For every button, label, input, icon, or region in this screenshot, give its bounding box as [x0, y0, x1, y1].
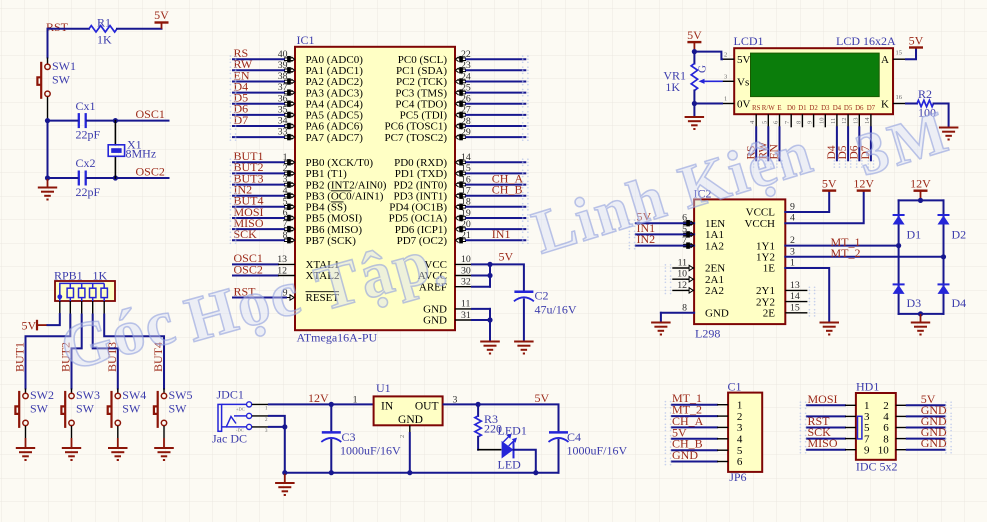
svg-text:2Y1: 2Y1	[756, 285, 775, 297]
svg-text:7: 7	[682, 235, 687, 246]
svg-text:D6: D6	[855, 105, 864, 112]
pin 25 wire PC3 (TMS)	[395, 82, 525, 99]
svg-text:R2: R2	[918, 87, 932, 101]
svg-text:0V: 0V	[737, 99, 751, 111]
svg-text:C2: C2	[535, 289, 549, 303]
svg-text:5: 5	[737, 445, 743, 457]
svg-text:32: 32	[461, 277, 471, 288]
svg-text:34: 34	[278, 116, 288, 127]
svg-text:2Y2: 2Y2	[756, 296, 775, 308]
svg-text:1: 1	[724, 96, 727, 103]
svg-text:D2: D2	[952, 228, 967, 242]
svg-text:37: 37	[278, 82, 288, 93]
pin 6 1EN wire 5V	[636, 210, 725, 230]
power 5V for LCD contrast	[687, 41, 701, 43]
ground SW3	[62, 438, 81, 460]
wire VR1 bottom to 0V	[693, 91, 695, 104]
svg-text:2: 2	[737, 411, 743, 423]
ground C2	[514, 341, 534, 343]
svg-text:R1: R1	[97, 16, 111, 30]
pin 4 VCCH wire	[744, 192, 863, 230]
LED LED1	[498, 424, 527, 472]
svg-text:SW2: SW2	[30, 388, 54, 402]
svg-text:16: 16	[461, 174, 471, 185]
overline PB4 SS	[331, 201, 344, 203]
node AVCC	[487, 273, 492, 278]
capacitor C4	[549, 430, 628, 473]
pin 5 JP6 wire CH_B	[672, 437, 743, 457]
svg-text:15: 15	[790, 302, 800, 313]
ground SW4	[108, 438, 128, 460]
svg-text:6: 6	[737, 456, 743, 468]
svg-text:1000uF/16V: 1000uF/16V	[340, 444, 401, 458]
svg-text:PA7 (ADC7): PA7 (ADC7)	[306, 132, 364, 144]
node crystal bottom	[113, 175, 118, 180]
svg-text:5V: 5V	[737, 54, 751, 66]
node LCD 0V	[692, 101, 697, 106]
svg-text:GND: GND	[423, 315, 447, 327]
svg-text:22pF: 22pF	[76, 128, 101, 142]
LCD bottom pin stubs and numbers	[749, 114, 871, 127]
pin 2 JP6 wire MT_2	[672, 403, 743, 423]
svg-text:40: 40	[278, 49, 288, 60]
svg-text:2: 2	[724, 52, 727, 59]
svg-text:1: 1	[353, 395, 358, 406]
pin 29 wire PC7 (TOSC2)	[385, 127, 526, 144]
svg-text:SCK: SCK	[234, 227, 258, 241]
wire RS from LCD	[755, 127, 757, 160]
svg-text:2EN: 2EN	[705, 263, 725, 275]
svg-text:1A2: 1A2	[705, 240, 724, 252]
wire 5V to RPB1 pin1	[48, 314, 60, 325]
pin stub SW2 top	[25, 389, 27, 393]
svg-text:PB1 (T1): PB1 (T1)	[306, 168, 348, 180]
wire R2 to ground	[934, 104, 949, 128]
wire OSC1	[115, 120, 168, 122]
pin stub SW4 bottom	[117, 426, 119, 438]
pin 7 HD1 wire	[807, 425, 870, 445]
svg-text:5V: 5V	[909, 34, 924, 48]
connector HD1 IDC 5x2	[856, 380, 898, 474]
svg-text:GND: GND	[398, 414, 423, 426]
diode D2	[938, 215, 967, 242]
svg-text:2: 2	[399, 435, 406, 438]
wire R3 to LED	[478, 449, 501, 451]
svg-text:VCCH: VCCH	[744, 218, 775, 230]
pin 9 RESET	[233, 284, 339, 304]
svg-text:D7: D7	[867, 105, 876, 112]
svg-text:8: 8	[283, 230, 288, 241]
pin 2 1Y1 wire MT_1	[756, 235, 899, 253]
pin 13 XTAL1	[233, 251, 339, 271]
wire node to Cx2	[48, 177, 78, 179]
svg-text:33: 33	[278, 127, 288, 138]
pin 37 wire PA3 (ADC3)	[233, 79, 363, 99]
node MT_1 bridge	[896, 243, 901, 248]
svg-text:LED: LED	[498, 458, 522, 472]
wire D5 from LCD	[847, 127, 849, 160]
capacitor C3	[321, 404, 401, 472]
svg-text:10: 10	[677, 269, 687, 280]
svg-text:D5: D5	[837, 145, 849, 159]
pin 3 1Y2 wire MT_2	[756, 246, 943, 264]
svg-text:1E: 1E	[763, 263, 776, 275]
svg-text:2E: 2E	[763, 308, 776, 320]
pin 21 wire PD7 (OC2)	[397, 227, 526, 247]
pin stub SW5 bottom	[163, 426, 165, 438]
svg-text:E: E	[777, 105, 781, 112]
overline PB3 OC0	[331, 190, 352, 192]
svg-text:SW5: SW5	[169, 388, 193, 402]
LCD pin 1 0V wire	[694, 96, 734, 104]
wire RST net to R1	[48, 28, 90, 30]
wire OSC1 node vertical	[47, 121, 49, 178]
svg-text:RS: RS	[752, 105, 761, 112]
pin 5 1A1 wire IN1	[636, 221, 724, 241]
connector JDC1 jack	[212, 388, 252, 446]
svg-text:31: 31	[461, 310, 471, 321]
pin 13 2Y1 stub	[756, 280, 807, 297]
pin 24 wire PC2 (TCK)	[396, 71, 525, 88]
svg-text:26: 26	[461, 94, 471, 105]
svg-text:IN1: IN1	[492, 227, 511, 241]
svg-text:D1: D1	[907, 228, 922, 242]
svg-text:11: 11	[830, 118, 837, 124]
pin 11 2EN stub	[672, 258, 725, 275]
svg-text:SW: SW	[30, 401, 49, 415]
svg-text:4: 4	[790, 213, 795, 224]
pin 14 wire PD0 (RXD)	[394, 152, 525, 169]
wire 5V rail out	[444, 404, 559, 432]
svg-text:LCD 16x2A: LCD 16x2A	[836, 34, 896, 48]
switch SW5	[154, 388, 193, 428]
pin 9 HD1 wire	[807, 436, 870, 456]
svg-text:1K: 1K	[97, 33, 112, 47]
pin 6 HD1 wire GND	[883, 414, 947, 434]
LCD bottom pin names	[752, 105, 876, 112]
pin 32 AREF	[419, 277, 490, 294]
svg-text:MISO: MISO	[808, 436, 838, 450]
pin 20 wire PD6 (ICP1)	[395, 219, 526, 236]
svg-text:PA1 (ADC1): PA1 (ADC1)	[306, 65, 364, 77]
svg-text:8MHz: 8MHz	[126, 147, 157, 161]
svg-text:24: 24	[461, 71, 471, 82]
svg-text:5V: 5V	[687, 28, 702, 42]
svg-text:18: 18	[461, 197, 471, 208]
svg-text:C4: C4	[567, 430, 581, 444]
svg-text:10: 10	[878, 444, 890, 456]
svg-text:D3: D3	[907, 296, 922, 310]
svg-text:PA4 (ADC4): PA4 (ADC4)	[306, 98, 364, 110]
node MT_2 bridge	[941, 254, 946, 259]
svg-text:12V: 12V	[910, 176, 931, 190]
svg-text:RST: RST	[46, 20, 69, 34]
svg-text:D4: D4	[833, 105, 842, 112]
wire GND bus	[489, 309, 491, 342]
pin stub SW5 top	[163, 389, 165, 393]
pin 34 wire PA6 (ADC6)	[233, 113, 363, 133]
svg-text:2A2: 2A2	[705, 285, 724, 297]
crystal X1 8MHz	[108, 121, 156, 178]
wire ground rail	[285, 472, 559, 474]
wire 12V rail	[269, 403, 374, 405]
pin 3 JP6 wire CH_A	[672, 414, 743, 434]
power 5V RPB1	[22, 319, 48, 333]
svg-text:8: 8	[682, 302, 687, 313]
pin 3 wire PB2 (INT2/AIN0)	[233, 171, 387, 191]
wire SW1 top	[47, 29, 49, 58]
wire U1 GND to rail	[409, 433, 411, 473]
wire LED to rail	[514, 450, 536, 473]
svg-text:29: 29	[461, 127, 471, 138]
ISP marker rectangle HD1	[858, 416, 862, 439]
diode D4	[938, 284, 967, 310]
svg-text:5: 5	[283, 196, 288, 207]
pin 40 wire PA0 (ADC0)	[233, 46, 363, 66]
node C3 bottom	[329, 470, 334, 475]
ground 1E	[820, 322, 840, 324]
svg-text:7: 7	[283, 219, 288, 230]
svg-text:6: 6	[283, 208, 288, 219]
pin 4 JP6 wire 5V	[672, 425, 743, 445]
ground SW5	[154, 438, 174, 460]
pin 11 GND	[423, 299, 490, 316]
svg-text:28: 28	[461, 116, 471, 127]
pin 7 wire PB6 (MISO)	[233, 216, 362, 236]
svg-text:5V: 5V	[22, 319, 37, 333]
svg-text:D4: D4	[952, 296, 967, 310]
node bridge top	[918, 198, 923, 203]
node LCD 5V	[692, 49, 697, 54]
wire OSC2	[115, 177, 168, 179]
svg-text:G: G	[697, 65, 709, 73]
svg-text:PC1 (SDA): PC1 (SDA)	[396, 65, 447, 77]
pin 8 GND wire	[661, 302, 729, 322]
pin 1 wire PB0 (XCK/T0)	[233, 149, 373, 169]
pin 16 wire PD2 (INT0)	[394, 171, 526, 191]
svg-text:GND: GND	[921, 436, 947, 450]
svg-text:IN: IN	[381, 401, 394, 413]
pin stub SW2 bottom	[25, 426, 27, 438]
LCD pin 15 A wire	[893, 49, 916, 59]
svg-text:23: 23	[461, 60, 471, 71]
ground below Cx2 node	[38, 178, 57, 200]
RPB1 pin stubs	[59, 301, 61, 316]
svg-text:OSC1: OSC1	[136, 107, 165, 121]
node bridge bottom	[918, 311, 923, 316]
wire BUT4	[104, 315, 164, 389]
pin 8 HD1 wire GND	[883, 425, 947, 445]
power 5V LCD backlight	[909, 46, 923, 48]
pin 1 HD1 wire	[807, 392, 870, 412]
wire R1 to 5V	[117, 28, 162, 30]
resistor R2	[917, 87, 936, 120]
ground IC2 GND	[651, 322, 671, 324]
LCD pin 2 5V wire	[694, 52, 734, 60]
diode D1	[893, 215, 922, 242]
wire D4 from LCD	[836, 127, 838, 160]
svg-text:12: 12	[841, 118, 848, 125]
svg-text:14: 14	[461, 152, 471, 163]
node SW1/Cx1	[45, 118, 50, 123]
svg-text:4: 4	[737, 434, 743, 446]
svg-text:35: 35	[278, 105, 288, 116]
power 12V bridge	[914, 189, 928, 191]
svg-text:PD4 (OC1B): PD4 (OC1B)	[389, 202, 447, 214]
svg-text:D4: D4	[826, 145, 838, 159]
pin 14 2Y2 stub	[756, 291, 807, 308]
pin 39 wire PA1 (ADC1)	[233, 57, 363, 77]
pin stubs JDC1	[252, 403, 269, 405]
svg-text:IC1: IC1	[297, 33, 315, 47]
pin 31 GND	[423, 310, 490, 327]
ground bridge	[911, 314, 930, 335]
pin 12 2A2 stub	[672, 280, 724, 297]
switch SW1	[37, 59, 76, 99]
pin 10 VCC	[424, 254, 490, 271]
svg-text:+DC: +DC	[236, 407, 245, 412]
wire 5V to C2	[490, 264, 524, 292]
svg-text:1000uF/16V: 1000uF/16V	[567, 444, 628, 458]
svg-text:ATmega16A-PU: ATmega16A-PU	[297, 331, 378, 345]
svg-text:SW1: SW1	[52, 59, 76, 73]
svg-text:CH_B: CH_B	[492, 183, 523, 197]
svg-text:5V: 5V	[535, 391, 550, 405]
svg-text:21: 21	[461, 230, 471, 241]
svg-text:OUT: OUT	[415, 401, 439, 413]
node R3 top	[476, 402, 481, 407]
pin 26 wire PC4 (TDO)	[395, 94, 525, 111]
pin 2 wire PB1 (T1)	[233, 160, 347, 180]
svg-text:1A1: 1A1	[705, 229, 724, 241]
svg-text:25: 25	[461, 82, 471, 93]
wire bridge right column	[943, 200, 945, 314]
svg-text:5: 5	[761, 121, 768, 124]
svg-text:1: 1	[790, 258, 795, 269]
node U1 GND rail	[407, 470, 412, 475]
ground VR1	[685, 116, 705, 118]
diode D3	[893, 284, 922, 310]
svg-text:1: 1	[737, 399, 743, 411]
svg-text:9: 9	[790, 202, 795, 213]
pin 28 wire PC6 (TOSC1)	[385, 116, 526, 133]
ground rail	[275, 473, 295, 495]
svg-text:LCD1: LCD1	[734, 34, 764, 48]
svg-text:SW: SW	[169, 401, 188, 415]
wire bridge top rail	[899, 199, 944, 201]
svg-text:5V: 5V	[499, 250, 514, 264]
capacitor C2	[514, 289, 577, 317]
capacitor Cx1	[76, 99, 101, 142]
potentiometer VR1	[663, 52, 708, 94]
pin 5 HD1 wire	[807, 414, 870, 434]
pin 4 HD1 wire GND	[883, 403, 947, 423]
svg-text:10: 10	[461, 254, 471, 265]
svg-text:2A1: 2A1	[705, 274, 724, 286]
pin 4 wire PB3 (OC0/AIN1)	[233, 183, 384, 203]
svg-text:1Y1: 1Y1	[756, 240, 775, 252]
LCD pin 3 Vs wire (wiper)	[699, 74, 735, 84]
svg-text:27: 27	[461, 105, 471, 116]
pin 15 wire PD1 (TXD)	[395, 163, 526, 180]
wire VCC bus vertical	[489, 264, 491, 286]
svg-text:U1: U1	[376, 381, 391, 395]
resistor R3	[475, 404, 502, 449]
switch SW3	[61, 388, 100, 428]
pin 1 1E wire to ground	[763, 258, 829, 323]
wire bridge bottom rail	[899, 313, 944, 315]
svg-text:39: 39	[278, 60, 288, 71]
svg-text:3: 3	[724, 74, 727, 81]
pin 2 HD1 wire 5V	[883, 392, 944, 412]
svg-text:IDC 5x2: IDC 5x2	[856, 460, 898, 474]
svg-text:PC7 (TOSC2): PC7 (TOSC2)	[385, 132, 448, 144]
svg-text:2: 2	[283, 163, 288, 174]
wire SW1 bottom to OSC1 node	[47, 97, 49, 121]
node LED rail	[533, 470, 538, 475]
connector C1 JP6	[728, 380, 763, 485]
svg-text:5V: 5V	[154, 8, 169, 22]
svg-text:3: 3	[737, 422, 743, 434]
wire BUT1	[26, 315, 71, 389]
wire Cx1 to crystal node	[87, 120, 116, 122]
svg-text:15: 15	[461, 163, 471, 174]
svg-text:30: 30	[461, 265, 471, 276]
resistor R1	[89, 16, 117, 47]
pin 35 wire PA5 (ADC5)	[233, 102, 363, 122]
svg-text:MT_2: MT_2	[831, 246, 861, 260]
resistor pack RPB1	[54, 269, 115, 302]
svg-text:4: 4	[283, 185, 288, 196]
pin 38 wire PA2 (ADC2)	[233, 68, 363, 88]
svg-text:OSC2: OSC2	[136, 165, 165, 179]
pin 10 2A1 stub	[672, 269, 724, 286]
svg-text:9: 9	[864, 444, 870, 456]
pin 23 wire PC1 (SDA)	[396, 60, 525, 77]
svg-text:D1: D1	[798, 105, 807, 112]
switch SW4	[108, 388, 147, 428]
ground SW2	[16, 438, 35, 460]
node VCC	[487, 262, 492, 267]
svg-text:17: 17	[461, 186, 471, 197]
svg-text:SW: SW	[76, 401, 95, 415]
node rail left	[282, 470, 287, 475]
svg-text:A: A	[881, 54, 889, 66]
svg-text:22pF: 22pF	[76, 185, 101, 199]
pin 22 wire PC0 (SCL)	[398, 49, 526, 66]
svg-text:16: 16	[896, 94, 903, 101]
pin 33 wire PA7 (ADC7)	[233, 127, 363, 144]
svg-text:SW4: SW4	[122, 388, 146, 402]
svg-text:GND: GND	[705, 308, 729, 320]
wire JDC middle to bottom	[269, 416, 285, 427]
ground IC1	[480, 341, 500, 343]
node crystal top	[113, 118, 118, 123]
svg-text:11: 11	[461, 299, 471, 310]
svg-text:10: 10	[818, 118, 825, 125]
svg-text:20: 20	[461, 219, 471, 230]
svg-text:SW: SW	[52, 72, 71, 86]
svg-text:22: 22	[461, 49, 471, 60]
hotspot grid dots	[230, 55, 952, 465]
svg-text:JDC1: JDC1	[217, 388, 244, 402]
svg-text:1Y2: 1Y2	[756, 252, 775, 264]
pin 27 wire PC5 (TDI)	[400, 105, 526, 122]
svg-text:9: 9	[807, 121, 814, 124]
svg-text:C3: C3	[342, 430, 356, 444]
svg-text:R/W: R/W	[762, 105, 776, 112]
pin 36 wire PA4 (ADC4)	[233, 91, 363, 111]
